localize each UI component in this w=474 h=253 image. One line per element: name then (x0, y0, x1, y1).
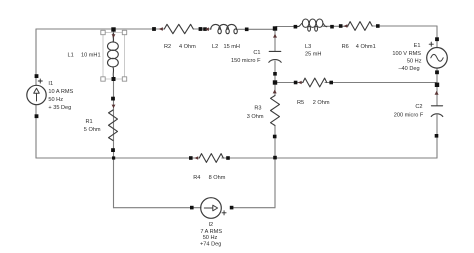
wire C1 to R5 node and R3 (274, 61, 276, 96)
svg-text:R4: R4 (193, 175, 200, 181)
svg-text:10 mH1: 10 mH1 (81, 53, 101, 59)
I1 internal arrow (36, 93, 38, 102)
junction node top at C1 branch (273, 26, 277, 30)
pin R6 left (339, 24, 343, 28)
wire L2 to node C1 (236, 28, 274, 30)
inductor L1 (vertical coil) (108, 33, 119, 77)
resistor R2 (horizontal top) (164, 24, 193, 33)
pin R4 left (189, 156, 193, 160)
pin R1 bottom (111, 148, 115, 152)
wire L3 to R6 (323, 25, 348, 27)
wire R3 bottom through bus down to I2 row (274, 126, 276, 208)
pin L1 bottom (112, 77, 116, 81)
svg-text:R5: R5 (297, 100, 304, 106)
pin R6 right (376, 24, 380, 28)
svg-text:10 A RMS: 10 A RMS (48, 89, 73, 95)
resistor R1 (vertical) (109, 110, 118, 141)
capacitor C2 (431, 106, 443, 117)
current source I2 (201, 198, 222, 219)
svg-text:50 Hz: 50 Hz (48, 97, 63, 103)
wire middle R5 row (275, 82, 303, 84)
resistor R5 (horizontal middle) (303, 78, 327, 87)
selection box around L1 (103, 33, 125, 80)
current arrow at L2 left (205, 27, 209, 31)
selection handle bottom-left (101, 77, 105, 81)
current source I1 (27, 85, 46, 104)
wire top-left horizontal (node 1 to R2) (36, 28, 164, 30)
junction node at L1 top (111, 27, 115, 31)
pin R5 left (294, 81, 298, 85)
current arrow at L1 top (112, 34, 116, 38)
svg-text:C1: C1 (253, 50, 260, 56)
svg-text:200 micro F: 200 micro F (394, 112, 424, 118)
svg-text:15 mH: 15 mH (224, 44, 240, 50)
svg-text:+74 Deg: +74 Deg (200, 242, 221, 248)
current arrow at R5 left (298, 81, 302, 84)
wire left mid branch vertical (R1 column through bus) (113, 80, 115, 208)
wire bottom bus left (36, 157, 199, 159)
wire node C1 to L3 (276, 26, 299, 28)
pin R2 left (152, 27, 156, 31)
plus sign of E1 (429, 42, 433, 46)
current arrow at R4 left (194, 156, 198, 159)
wire L1 column top lead (113, 30, 115, 43)
wire left vertical lower (I1 bottom to bottom bus) (35, 105, 37, 158)
pin R4 right (226, 156, 230, 160)
svg-text:R2: R2 (164, 44, 171, 50)
svg-text:I1: I1 (48, 81, 53, 87)
wire bottom bus right (222, 157, 437, 159)
wire I2 row right segment (231, 207, 275, 209)
svg-text:R6: R6 (342, 44, 349, 50)
wire E1 bottom to node (436, 68, 438, 105)
svg-text:C2: C2 (415, 104, 422, 110)
svg-text:8 Ohm: 8 Ohm (209, 175, 226, 181)
pin C2 bottom (435, 134, 439, 138)
pin C1 bottom (273, 72, 277, 76)
svg-text:L1: L1 (68, 53, 74, 59)
pin R2 right (199, 27, 203, 31)
svg-text:+ 35 Deg: + 35 Deg (48, 105, 71, 111)
wire R2 to L2 (193, 28, 211, 30)
pin I2 right (230, 206, 234, 210)
pin E1 bottom (435, 70, 439, 74)
svg-text:25 mH: 25 mH (305, 51, 321, 57)
svg-text:R3: R3 (254, 106, 261, 112)
svg-text:150 micro F: 150 micro F (231, 58, 261, 64)
svg-text:R1: R1 (86, 119, 93, 125)
current arrow at R3 top (273, 90, 277, 94)
wire left vertical upper (to I1 top) (35, 29, 37, 85)
svg-text:50 Hz: 50 Hz (407, 59, 422, 65)
wire I2 row left segment (114, 207, 202, 209)
svg-text:L2: L2 (212, 44, 218, 50)
plus sign of I1 (38, 79, 42, 83)
svg-text:50 Hz: 50 Hz (203, 235, 218, 241)
current arrow at R1 top (112, 105, 116, 109)
pin R1 top (111, 97, 115, 101)
pin L3 left (294, 25, 298, 29)
pin E1 top (435, 37, 439, 41)
selection handle top-left (101, 30, 105, 34)
svg-text:I2: I2 (208, 222, 213, 228)
resistor R3 (vertical) (271, 96, 280, 126)
junction node at R5/R3/C1 (273, 80, 277, 84)
svg-text:4 Ohm: 4 Ohm (179, 44, 196, 50)
pin R3 bottom (273, 135, 277, 139)
capacitor C1 (269, 51, 281, 62)
plus sign of I2 (222, 211, 226, 215)
selection handle bottom-right (122, 77, 126, 81)
pin I2 left (190, 206, 194, 210)
inductor L3 (horizontal coil) (298, 19, 327, 31)
pin R5 right (329, 81, 333, 85)
svg-text:E1: E1 (414, 43, 421, 49)
wire R6 to top-right corner (372, 25, 437, 27)
resistor R4 (horizontal bottom) (199, 154, 223, 163)
pin I1 top (35, 74, 39, 78)
current arrow at C2 top (435, 91, 439, 95)
svg-text:5 Ohm: 5 Ohm (84, 127, 101, 133)
current arrow at R2 left (159, 27, 163, 31)
junction node at E1/R5/C2 (435, 83, 439, 87)
voltage source E1 (427, 48, 448, 69)
current arrow at R6 left (344, 24, 348, 27)
wire top-right vertical to E1 (436, 26, 438, 48)
I2 internal arrow (204, 207, 212, 209)
pin L2 right (245, 28, 249, 32)
svg-text:4 Ohm1: 4 Ohm1 (356, 44, 376, 50)
svg-text:–40 Deg: –40 Deg (398, 66, 419, 72)
pin I1 bottom (35, 114, 39, 118)
pin L2 left (203, 27, 207, 31)
junction dot bottom bus at R1 column (112, 156, 115, 159)
inductor L2 (horizontal coil) (211, 24, 238, 33)
wire R5 to E1 node (325, 82, 437, 84)
E1 sine wave (431, 54, 443, 61)
junction dot bottom bus at R3 column (273, 156, 277, 160)
wire C1 branch vertical (274, 29, 276, 52)
pin L3 right (330, 25, 334, 29)
svg-text:2 Ohm: 2 Ohm (313, 100, 330, 106)
current arrow on C1 branch (273, 34, 277, 38)
svg-text:100 V RMS: 100 V RMS (392, 51, 421, 57)
resistor R6 (horizontal) (348, 22, 372, 31)
svg-text:L3: L3 (305, 44, 311, 50)
selection handle top-right (122, 30, 126, 34)
svg-text:3 Ohm: 3 Ohm (247, 114, 264, 120)
wire C2 bottom to bottom bus (436, 115, 438, 158)
